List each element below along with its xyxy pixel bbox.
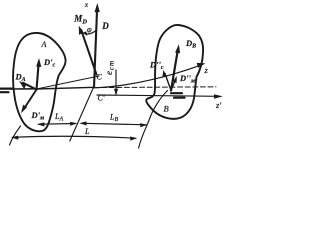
svg-text:B: B xyxy=(164,104,169,114)
svg-text:C: C xyxy=(97,73,103,82)
svg-text:x: x xyxy=(84,0,89,9)
svg-text:z': z' xyxy=(215,100,221,110)
svg-text:D: D xyxy=(101,21,109,31)
svg-text:C': C' xyxy=(98,94,105,103)
svg-text:L: L xyxy=(84,127,90,136)
svg-text:eст: eст xyxy=(104,60,116,75)
svg-text:φ: φ xyxy=(87,24,92,34)
svg-text:z: z xyxy=(204,65,209,75)
svg-text:A: A xyxy=(41,40,47,49)
